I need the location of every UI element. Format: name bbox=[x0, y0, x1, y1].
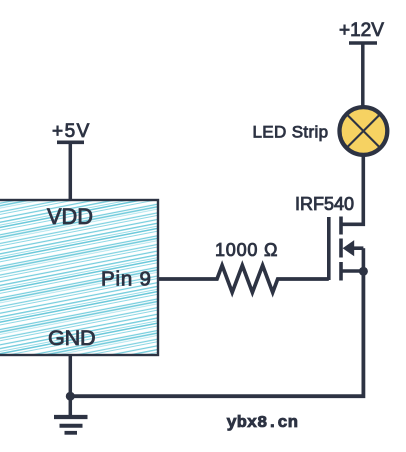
channel dash source bbox=[339, 262, 343, 281]
gate bar bbox=[327, 217, 331, 280]
junction dot source/body bbox=[359, 267, 368, 276]
channel dash body bbox=[339, 239, 343, 258]
svg-text:Pin 9: Pin 9 bbox=[101, 268, 152, 291]
svg-text:VDD: VDD bbox=[47, 204, 93, 229]
transistor Q1 IRF540 N-MOSFET bbox=[329, 217, 368, 281]
wire MOSFET source down and to ground rail bbox=[70, 271, 363, 396]
microcontroller U1 (hatched IC box) bbox=[0, 200, 158, 355]
lamp LED Strip (circle with X) bbox=[340, 107, 388, 155]
junction dot ground node bbox=[66, 392, 75, 401]
svg-text:+12V: +12V bbox=[339, 20, 384, 41]
wire lamp to MOSFET drain bbox=[341, 155, 363, 224]
source stub bbox=[341, 269, 363, 273]
svg-text:IRF540: IRF540 bbox=[295, 194, 354, 214]
ground symbol bbox=[54, 417, 88, 433]
svg-text:ybx8.cn: ybx8.cn bbox=[227, 414, 298, 433]
svg-text:GND: GND bbox=[48, 325, 95, 350]
channel dash drain bbox=[339, 217, 343, 235]
wire GND pin down bbox=[69, 355, 73, 417]
resistor R1 1000 ohm bbox=[158, 265, 329, 292]
body arrow bbox=[343, 240, 355, 256]
svg-text:LED Strip: LED Strip bbox=[253, 123, 329, 142]
wire +12V to lamp bbox=[361, 43, 365, 107]
power +5V symbol bbox=[52, 121, 91, 142]
wire +5V to VDD bbox=[69, 142, 73, 200]
svg-text:+5V: +5V bbox=[52, 121, 91, 142]
svg-text:1000 Ω: 1000 Ω bbox=[215, 240, 278, 260]
power +12V symbol bbox=[339, 20, 384, 43]
